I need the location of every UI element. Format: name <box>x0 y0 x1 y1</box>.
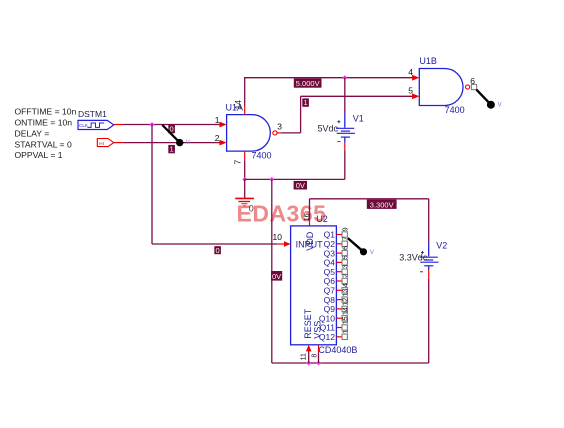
svg-text:ONTIME = 10n: ONTIME = 10n <box>15 118 73 128</box>
svg-text:V2: V2 <box>436 240 447 250</box>
wire U1A out to corner <box>282 132 301 134</box>
wire to U2 INPUT <box>152 243 278 245</box>
bias label 0V (left vertical) <box>271 271 282 281</box>
wire CLK to U1A pin1 <box>124 124 220 126</box>
wire HI to U1A pin2 <box>124 142 220 144</box>
wire corner up <box>300 96 302 133</box>
stimulus parameter text block <box>15 107 77 161</box>
digital clock stimulus DSTM1 symbol <box>78 120 114 129</box>
svg-text:10: 10 <box>273 232 283 242</box>
svg-text:v: v <box>186 137 190 146</box>
wire to U1B pin5 <box>301 95 416 97</box>
svg-text:1: 1 <box>170 145 174 154</box>
bias label 0V (ground rail) <box>294 181 307 190</box>
svg-text:HI: HI <box>99 141 104 146</box>
wire VDD up <box>309 199 311 220</box>
bias label 3.300V <box>367 200 397 210</box>
svg-text:9: 9 <box>342 227 349 231</box>
svg-text:7400: 7400 <box>252 151 272 161</box>
wire junction node <box>150 122 155 127</box>
svg-text:4: 4 <box>342 283 349 287</box>
U2 VDD pin stub <box>309 219 311 226</box>
svg-text:4: 4 <box>408 67 413 77</box>
V2 bottom pin <box>428 270 430 279</box>
U1B pin6 square <box>471 84 476 89</box>
svg-text:CLK: CLK <box>79 123 89 128</box>
svg-text:V1: V1 <box>353 113 364 123</box>
U2 output pin names Q1-Q12 <box>319 230 335 342</box>
svg-text:CD4040B: CD4040B <box>318 345 357 355</box>
svg-text:1: 1 <box>304 98 308 107</box>
U1B pin5 arrow <box>412 93 419 99</box>
bias label 1 (HI net) <box>168 145 175 154</box>
V1 bottom pin <box>344 143 346 151</box>
bias label 0 (input net) <box>168 125 175 134</box>
svg-text:DELAY =: DELAY = <box>15 128 50 138</box>
svg-text:OFFTIME = 10n: OFFTIME = 10n <box>15 107 77 117</box>
wire down from junction <box>151 125 153 245</box>
U1A output bubble <box>273 131 277 135</box>
U1A pin3 stub <box>277 132 282 134</box>
svg-text:U1B: U1B <box>419 56 437 66</box>
U2 INPUT pin arrow <box>278 241 291 246</box>
junction vss stub <box>316 361 321 366</box>
svg-text:2: 2 <box>215 133 220 143</box>
voltage probe at U1B output <box>476 90 501 109</box>
ground 0 symbol <box>235 179 254 205</box>
nand gate U1B <box>412 69 477 106</box>
U1A pin1 arrow <box>219 122 226 128</box>
svg-text:5.000V: 5.000V <box>296 79 320 88</box>
HI output pin <box>114 142 124 144</box>
ground wire to V1 minus <box>245 178 345 180</box>
bias label 0 (bottom input wire) <box>214 246 221 255</box>
svg-text:3.3Vdc: 3.3Vdc <box>399 252 428 262</box>
svg-text:13: 13 <box>342 289 349 297</box>
U2 output pins Q1-Q12 <box>336 235 342 337</box>
wire down to V2 plus <box>428 199 430 243</box>
svg-text:11: 11 <box>301 353 308 360</box>
svg-text:Q12: Q12 <box>319 332 335 342</box>
U1A pin14 stub <box>244 106 246 115</box>
svg-text:3.300V: 3.300V <box>370 200 394 209</box>
junction ground tee <box>269 177 274 182</box>
svg-text:5Vdc: 5Vdc <box>318 123 339 133</box>
svg-text:8: 8 <box>311 354 318 358</box>
svg-text:3: 3 <box>342 265 349 269</box>
svg-text:0V: 0V <box>272 272 281 281</box>
svg-text:VDD: VDD <box>305 231 315 251</box>
wire reset stub <box>308 350 310 363</box>
voltage probe at Q1 <box>348 238 374 256</box>
svg-text:U2: U2 <box>316 214 328 224</box>
U1B output bubble <box>466 85 470 89</box>
U2 RESET arrow <box>306 345 312 352</box>
svg-text:2: 2 <box>342 274 349 278</box>
svg-text:14: 14 <box>233 100 243 110</box>
DSTM1 output pin <box>114 124 124 126</box>
V2 minus mark <box>420 271 423 273</box>
wire up to V1 minus <box>344 150 346 179</box>
V1 minus mark <box>337 141 340 143</box>
U2 VSS pin stub <box>318 345 320 353</box>
svg-text:15: 15 <box>342 316 349 324</box>
svg-text:DSTM1: DSTM1 <box>78 109 107 119</box>
bias label 1 (gate out net) <box>302 98 309 107</box>
svg-text:0: 0 <box>249 204 254 214</box>
V1 plus mark <box>337 120 340 123</box>
voltage probe at input wire <box>162 125 190 146</box>
wire junction down to V1 <box>344 78 346 113</box>
svg-text:OPPVAL = 1: OPPVAL = 1 <box>15 150 63 160</box>
svg-text:1: 1 <box>342 330 349 334</box>
junction at V1 plus <box>342 75 347 80</box>
wire ground tee down <box>271 179 273 363</box>
svg-text:0V: 0V <box>296 181 305 190</box>
wire U1A pin14 up <box>244 78 246 106</box>
svg-text:7: 7 <box>233 160 243 165</box>
svg-text:14: 14 <box>342 307 349 315</box>
nand gate U1A <box>219 106 281 161</box>
svg-text:12: 12 <box>342 298 349 306</box>
dc source V1 <box>336 113 355 143</box>
U1B pin4 arrow <box>412 75 419 81</box>
svg-text:6: 6 <box>342 246 349 250</box>
U1A pin2 arrow <box>219 140 226 146</box>
HI stimulus symbol <box>97 139 114 147</box>
bottom ground wire <box>272 362 429 364</box>
svg-text:1: 1 <box>215 115 220 125</box>
wire U1A pin7 down <box>244 160 246 179</box>
wire 5V rail to U1B pin4 <box>244 77 415 79</box>
wire 3.3V rail <box>310 198 429 200</box>
svg-text:STARTVAL = 0: STARTVAL = 0 <box>15 139 72 149</box>
svg-text:5: 5 <box>408 86 413 96</box>
svg-text:0: 0 <box>216 246 220 255</box>
svg-text:7400: 7400 <box>445 105 465 115</box>
U1A pin7 stub <box>244 151 246 160</box>
svg-text:3: 3 <box>277 121 282 131</box>
junction reset stub <box>306 361 311 366</box>
svg-text:v: v <box>498 99 502 108</box>
wire up to V2 minus <box>428 279 430 363</box>
svg-text:5: 5 <box>342 255 349 259</box>
bias label 5.000V <box>294 79 322 89</box>
counter U2 body <box>291 226 337 345</box>
V2 plus mark <box>421 251 424 254</box>
U2 unconnected pin squares <box>342 232 347 340</box>
svg-text:6: 6 <box>470 76 475 86</box>
U2 output pin numbers <box>342 227 349 333</box>
wire vss stub <box>318 352 320 363</box>
dc source V2 <box>420 243 439 270</box>
junction at ground stem <box>242 177 247 182</box>
svg-text:v: v <box>370 247 374 256</box>
